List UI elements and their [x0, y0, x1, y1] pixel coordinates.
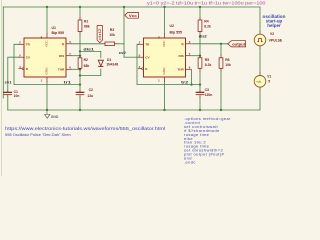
svg-text:Vcc: Vcc: [129, 14, 137, 18]
svg-text:VCC: VCC: [44, 40, 48, 47]
wire R3 to U2 CV (cv2 net): [118, 43, 125, 45]
svg-text:cv1: cv1: [5, 81, 12, 85]
svg-text:Bip 555: Bip 555: [52, 31, 65, 35]
wire dis1 to D1 anode: [80, 51, 101, 57]
wire U2 Q output: [192, 43, 228, 45]
junction dis1/D1 tap: [79, 50, 81, 52]
svg-text:https://www.electronics-tutori: https://www.electronics-tutorials.ws/wav…: [5, 126, 165, 131]
svg-text:R4: R4: [204, 20, 208, 24]
svg-text:68k: 68k: [84, 25, 90, 29]
resistor R1: [79, 17, 81, 20]
svg-text:D1: D1: [107, 58, 111, 62]
diode D1 1N4148: [98, 60, 103, 66]
wire U1 Q output to R3: [72, 43, 103, 45]
junction R4 at Vcc rail: [199, 6, 201, 8]
wire U1 TR feedback (tr1): [14, 44, 80, 84]
svg-text:R1: R1: [84, 20, 88, 24]
junction R1 at Vcc rail: [79, 6, 81, 8]
svg-text:R2: R2: [84, 58, 88, 62]
svg-text:dis2: dis2: [199, 35, 207, 39]
junction D1 cathode return: [79, 74, 81, 76]
svg-text:555 Oscillator Police "Dee-Dah: 555 Oscillator Police "Dee-Dah" Siren: [5, 133, 71, 137]
svg-text:10n: 10n: [14, 94, 20, 98]
wire left vertical: [2, 7, 4, 98]
wire V-source column: [259, 7, 261, 31]
capacitor C1: [7, 90, 9, 93]
junction Vcc label stub: [123, 6, 125, 8]
svg-text:DIS: DIS: [179, 54, 184, 58]
resistor R2: [79, 55, 81, 58]
svg-text:tr1: tr1: [64, 81, 71, 85]
svg-text:R6: R6: [225, 58, 229, 62]
svg-text:U1: U1: [52, 26, 57, 30]
svg-text:C2: C2: [89, 88, 93, 92]
svg-text:8.2k: 8.2k: [205, 63, 212, 67]
wire U2 DIS: [192, 55, 201, 57]
source V1 5V: [259, 72, 261, 75]
resistor R3: [102, 43, 105, 45]
wire R6 column: [220, 44, 222, 55]
resistor R5: [199, 55, 201, 58]
svg-text:68k: 68k: [84, 64, 90, 68]
svg-text:y1=0 y2=-2 td=10u tr=1u tf=1u: y1=0 y2=-2 td=10u tr=1u tf=1u tw=100u pe…: [147, 1, 266, 6]
svg-text:DIS: DIS: [59, 54, 64, 58]
svg-text:vdc: vdc: [256, 80, 261, 84]
svg-text:Bip 555: Bip 555: [170, 31, 183, 35]
svg-text:VPULSE: VPULSE: [269, 38, 283, 42]
U2 pin stubs: [138, 43, 144, 45]
wire R4/R5 column (dis2 net): [199, 7, 201, 17]
svg-text:THR: THR: [58, 68, 65, 72]
junction R6 at Q2 wire: [220, 43, 222, 45]
source V2 VPULSE (oscillation start-up): [259, 31, 261, 34]
ground symbol: [46, 110, 48, 114]
wire U2 THR down to tr2: [191, 69, 193, 84]
svg-text:10k: 10k: [225, 63, 231, 67]
wire D1 cathode return: [80, 69, 101, 76]
wire U2 GND: [164, 82, 166, 110]
svg-text:.endc: .endc: [184, 159, 196, 164]
svg-text:10k: 10k: [109, 33, 115, 37]
resistor R4: [199, 17, 201, 20]
junction U2 DIS / R5 top: [199, 55, 201, 57]
junction C3 at GND rail: [199, 109, 201, 111]
svg-text:GND: GND: [44, 67, 48, 75]
U1 pin stubs: [19, 43, 25, 45]
junction C2 at GND rail: [79, 109, 81, 111]
wire U1 GND: [46, 82, 48, 110]
junction R6 at GND rail: [220, 109, 222, 111]
svg-text:1N4148: 1N4148: [106, 63, 118, 67]
svg-text:GND: GND: [162, 67, 166, 75]
svg-text:tr2: tr2: [181, 81, 188, 85]
svg-text:VCC: VCC: [162, 40, 166, 47]
global label output: [228, 41, 246, 47]
svg-text:THR: THR: [177, 68, 184, 72]
wire U1 THR: [72, 68, 81, 70]
junction U2 THR riser: [190, 83, 192, 85]
svg-text:120n: 120n: [205, 93, 213, 97]
svg-text:12u: 12u: [87, 94, 93, 98]
resistor R6: [220, 55, 222, 58]
junction U2 GND at GND rail: [163, 109, 165, 111]
wire U1 DIS: [72, 55, 81, 57]
junction U1 GND at GND rail: [46, 109, 48, 111]
svg-text:dis1: dis1: [83, 47, 94, 51]
wire U1 VCC: [46, 7, 48, 33]
svg-text:cv2: cv2: [119, 51, 126, 55]
svg-text:C3: C3: [205, 88, 209, 92]
wire U2 TR feedback (tr2): [137, 44, 200, 84]
power label Vcc: [123, 7, 125, 12]
junction U1 DIS / R2 top: [79, 55, 81, 57]
svg-text:R5: R5: [205, 58, 209, 62]
junction U1 VCC at Vcc rail: [46, 6, 48, 8]
wire GND rail: [8, 109, 260, 111]
wire C3 column: [199, 85, 201, 90]
svg-text:5: 5: [268, 79, 270, 83]
junction U1 THR: [79, 68, 81, 70]
op IC U2 555 body: [144, 38, 186, 77]
svg-text:GND: GND: [51, 115, 59, 119]
op IC U1 555 body: [24, 38, 66, 77]
svg-text:8.2k: 8.2k: [204, 25, 211, 29]
wire R1/R2 column (dis1 net): [79, 7, 81, 17]
global label ctrl2 (rotated): [97, 26, 102, 43]
svg-text:V1: V1: [267, 74, 271, 78]
junction tr1 tie: [79, 83, 81, 85]
junction U2 VCC at Vcc rail: [163, 6, 165, 8]
svg-text:helper: helper: [267, 23, 281, 28]
svg-text:ctrl2: ctrl2: [98, 28, 102, 40]
wire Vcc rail: [3, 6, 260, 8]
junction tr2 / C3 top: [199, 83, 201, 85]
svg-text:V2: V2: [270, 32, 274, 36]
wire U1 CV to C1 (cv1): [8, 57, 19, 90]
capacitor C2: [79, 90, 81, 93]
wire U2 VCC: [164, 7, 166, 33]
capacitor C3: [199, 90, 201, 93]
svg-text:output: output: [232, 41, 246, 46]
svg-text:U2: U2: [170, 24, 175, 28]
svg-text:R3: R3: [110, 28, 114, 32]
